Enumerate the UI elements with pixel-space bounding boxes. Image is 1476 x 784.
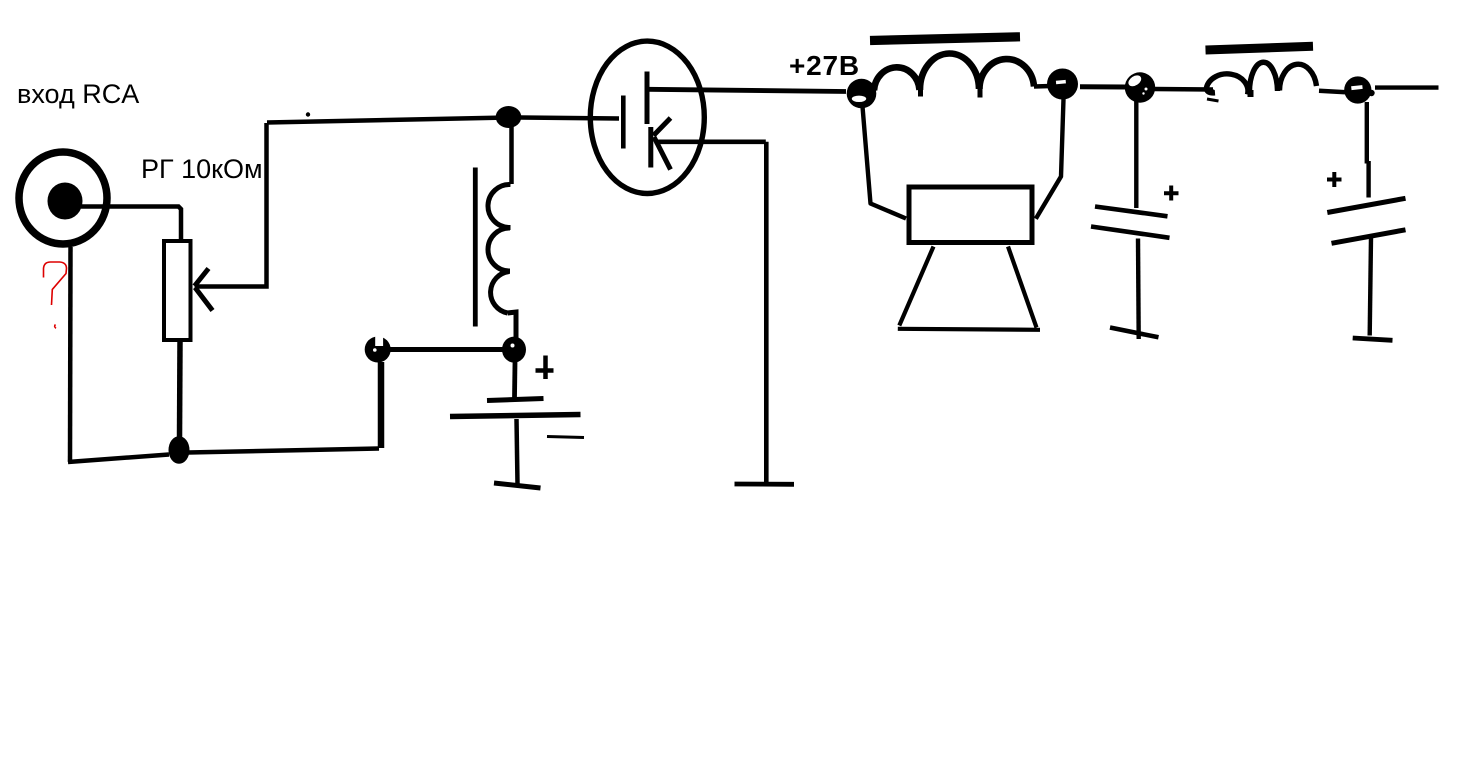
svg-text:РГ 10кОм: РГ 10кОм <box>141 154 263 184</box>
potentiometer R1 wiper wire <box>195 123 267 287</box>
capacitor C1 plate top <box>1095 207 1168 217</box>
wire junction D to gate <box>520 118 619 119</box>
transistor VT1 cathode bar lower <box>648 127 653 168</box>
capacitor C1 plate bottom <box>1091 227 1170 238</box>
RCA jack XS1 outer ring <box>19 152 107 244</box>
label minus battery <box>547 437 584 438</box>
wire node F to node G <box>1080 84 1126 89</box>
wire node H to right edge <box>1375 85 1439 89</box>
RCA jack XS1 center pin <box>48 183 83 220</box>
choke L3 winding <box>1206 62 1316 94</box>
transistor VT1 body <box>590 41 704 193</box>
wire bottom run left <box>68 455 169 463</box>
node F <box>1047 69 1078 100</box>
transistor VT1 drain lead wire <box>648 89 846 91</box>
speaker BA1 cone <box>898 247 1040 330</box>
ground GND2 <box>735 482 795 487</box>
ground GND4 <box>1353 338 1393 340</box>
wire junction D down to choke L1 <box>509 127 514 184</box>
top wire to junction D <box>267 118 508 123</box>
stray mark under L3 <box>1207 99 1219 101</box>
capacitor C2 plate bottom <box>1332 230 1406 244</box>
node B <box>365 335 391 363</box>
wire node G to choke L3 <box>1154 87 1213 92</box>
wire RCA pin to potentiometer top <box>81 207 181 242</box>
battery GB1 plate short <box>487 399 544 401</box>
wire C2 to ground <box>1370 238 1371 336</box>
wire C1 to ground <box>1136 239 1141 340</box>
junction dot C <box>502 337 526 363</box>
choke L1 winding <box>488 184 516 339</box>
choke L3 top bar <box>1206 46 1314 50</box>
choke L2 top bar <box>870 37 1020 41</box>
choke L2 winding <box>874 53 1034 90</box>
wire battery to ground <box>517 419 518 484</box>
transistor VT1 cathode bar upper <box>645 72 650 125</box>
transistor VT1 gate bar <box>621 96 626 149</box>
choke L2 winding stubs <box>921 88 981 98</box>
capacitor C2 plate top <box>1327 198 1405 212</box>
wire junction C to battery <box>512 362 517 398</box>
svg-text:+27В: +27В <box>789 50 860 81</box>
choke L1 core bar <box>473 168 478 327</box>
red question mark <box>44 262 67 328</box>
battery GB1 plate long <box>450 415 581 417</box>
node G <box>1125 72 1155 102</box>
wire node B to junction C <box>390 347 503 352</box>
speaker BA1 lead right <box>1036 99 1064 219</box>
wire source to ground <box>764 142 769 483</box>
speaker BA1 lead left <box>863 107 907 219</box>
label plus C2 <box>1327 172 1342 187</box>
wire L2 to node F <box>1034 84 1051 89</box>
wire node H to capacitor C2 <box>1367 102 1369 198</box>
ground GND3 <box>1110 328 1159 338</box>
wire pot bottom to junction A <box>177 342 183 440</box>
label plus battery <box>536 356 554 380</box>
transistor VT1 arrow <box>654 118 671 170</box>
tiny ink dot <box>306 112 310 116</box>
svg-text:вход RCA: вход RCA <box>17 79 139 109</box>
wire bottom run right <box>188 449 379 453</box>
node H <box>1344 76 1375 103</box>
junction dot A <box>169 436 190 464</box>
wire RCA shield down <box>68 247 73 462</box>
ground GND1 <box>494 483 541 488</box>
choke L3 winding stub <box>1248 90 1254 97</box>
speaker BA1 frame <box>909 187 1032 243</box>
potentiometer R1 wiper arrow <box>195 269 213 311</box>
transistor VT1 source lead <box>655 140 766 145</box>
label plus C1 <box>1164 186 1179 201</box>
potentiometer R1 body <box>164 241 191 340</box>
wire riser to node B <box>378 362 385 448</box>
node E <box>847 79 877 109</box>
wire node G to capacitor C1 <box>1134 100 1138 208</box>
wire L3 to node H <box>1319 91 1346 93</box>
junction dot D <box>496 106 522 128</box>
